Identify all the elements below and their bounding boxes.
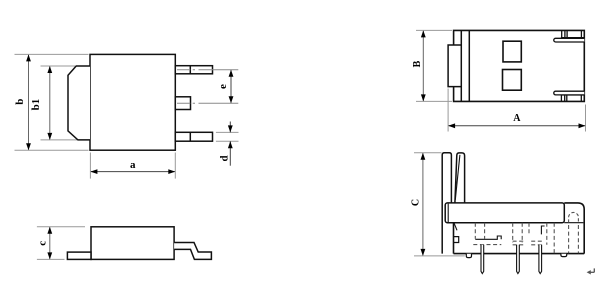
dimension b arrow top <box>26 54 31 61</box>
contact bump line group1 (solid) <box>475 236 501 239</box>
dimension C line <box>422 153 424 255</box>
diagonal below bar <box>454 223 457 230</box>
svg-text:B: B <box>412 60 423 67</box>
dimension b arrow bottom <box>26 143 31 150</box>
dimension a line <box>91 171 175 173</box>
top pin strip (top view) <box>554 38 585 42</box>
dimension a extension line right <box>174 153 176 179</box>
hidden dashed vertical 3 <box>512 223 514 243</box>
top bar (mounted view) <box>445 203 564 223</box>
pin 3 (mounted view) <box>539 245 542 274</box>
hidden dashed horizontals group3 <box>531 240 544 242</box>
dimension b1 extension line bottom <box>41 139 78 141</box>
middle pin (front view) <box>175 97 190 110</box>
hidden dashed vertical 2 <box>484 223 486 239</box>
svg-text:d: d <box>218 155 230 161</box>
bottom pin bend line <box>189 132 191 141</box>
bottom pin housing edge (top view) <box>561 94 584 96</box>
body (side view) <box>91 227 174 260</box>
bar end face line <box>447 204 449 222</box>
dimension d lower leg <box>229 141 231 165</box>
middle pin centerline <box>177 102 238 104</box>
hidden dashed horizontals group2 <box>513 240 525 242</box>
seam line 1 (top view) <box>460 30 462 101</box>
dimension d extension line top <box>216 131 239 133</box>
hidden dashed vertical 5 <box>528 223 530 234</box>
hidden dashed vertical 9 <box>577 225 579 253</box>
lever taper line <box>455 155 460 200</box>
dimension a extension line left <box>89 153 91 179</box>
wedge actuator (front view) <box>68 66 90 140</box>
seam line 2 (top view) <box>468 30 470 101</box>
body (front view) <box>90 54 175 150</box>
dimension C arrow top <box>421 153 426 160</box>
dimension B arrow bottom <box>421 94 426 101</box>
dimension b extension line top <box>15 53 89 55</box>
contact hook group3 (solid) <box>541 226 544 234</box>
dimension A extension line left <box>447 89 449 132</box>
top pin (front view) <box>175 66 212 74</box>
mounting foot right <box>561 254 567 257</box>
svg-text:b: b <box>14 99 26 105</box>
dimension C extension line bottom <box>414 255 465 257</box>
dimension B extension line bottom <box>416 100 452 102</box>
dimension d arrow up <box>228 141 233 148</box>
hidden dashed vertical 8 <box>568 225 570 253</box>
gull-wing lead (side view) <box>174 243 211 260</box>
notch on body left edge <box>454 237 459 243</box>
lever (mounted view) <box>455 153 465 203</box>
dimension a arrow left <box>90 169 97 174</box>
dimension b extension line bottom <box>15 149 89 151</box>
bottom pin bend lines (top view) <box>560 95 562 101</box>
svg-text:c: c <box>36 241 48 246</box>
window square 1 (top view) <box>503 41 521 62</box>
rear vertical plate (mounted view) <box>442 153 451 254</box>
dimension c line <box>49 227 51 258</box>
bottom pin (front view) <box>175 132 212 141</box>
dimension C extension line top <box>414 152 442 154</box>
dimension B extension line top <box>416 29 452 31</box>
dimension A line <box>449 125 585 127</box>
svg-text:b1: b1 <box>30 99 42 111</box>
dimension B line <box>422 31 424 101</box>
svg-text:C: C <box>410 199 421 206</box>
dimension c arrow top <box>47 227 52 234</box>
dimension d upper leg <box>229 122 231 133</box>
hidden dashed vertical 4 <box>521 223 523 243</box>
dimension a arrow right <box>168 169 175 174</box>
dimension C arrow bottom <box>421 249 426 256</box>
dimension A arrow right <box>579 123 586 128</box>
dimension d extension line bottom <box>216 140 239 142</box>
dimension e line <box>230 70 232 102</box>
window square 2 (top view) <box>503 70 522 91</box>
dimension e arrow top <box>229 70 234 77</box>
dimension b1 arrow bottom <box>47 133 52 140</box>
hidden dashed vertical 1 <box>474 223 476 239</box>
dimension c arrow bottom <box>47 252 52 259</box>
body outline (top view) <box>454 30 585 101</box>
dimension e arrow bottom <box>229 96 234 103</box>
dimension c extension line bottom <box>37 258 65 260</box>
svg-text:A: A <box>513 113 521 124</box>
dimension B arrow top <box>421 30 426 37</box>
dimension d arrow down <box>228 125 233 132</box>
svg-text:a: a <box>130 159 136 171</box>
dimension b1 arrow top <box>47 66 52 73</box>
hidden dashed horizontal group1 <box>473 244 501 246</box>
left tab pin (side view) <box>67 252 91 259</box>
pin 2 (mounted view) <box>517 245 520 274</box>
dimension b1 extension line top <box>41 65 76 67</box>
hidden dashed vertical 7 <box>553 223 555 254</box>
top pin bend line <box>189 66 191 74</box>
top pin bend lines (top view) <box>561 30 563 37</box>
mounting foot left <box>466 254 471 258</box>
bottom pin strip (top view) <box>554 91 585 95</box>
pin 1 (mounted view) <box>481 245 484 274</box>
seam under bar right <box>564 222 583 224</box>
dimension c extension line top <box>37 226 85 228</box>
dimension b line <box>28 55 30 150</box>
hidden arch (dashed) <box>569 212 579 222</box>
top pin centerline <box>177 69 238 71</box>
dimension b1 line <box>49 67 51 140</box>
hidden dashed vertical 6 <box>546 223 548 245</box>
svg-text:e: e <box>217 84 229 89</box>
top pin housing edge (top view) <box>561 37 584 39</box>
dimension A extension line right <box>585 105 587 132</box>
return arrow symbol <box>590 268 594 272</box>
body lower block (mounted view) <box>454 203 585 254</box>
actuator tab (top view) <box>448 45 461 87</box>
dimension A arrow left <box>448 123 455 128</box>
